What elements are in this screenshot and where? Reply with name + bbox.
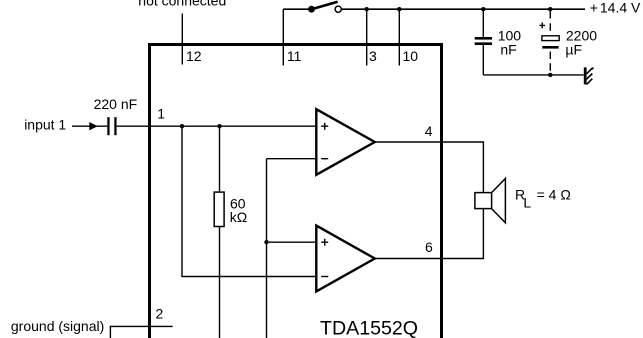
speaker LS1 box: [475, 193, 492, 209]
wire node C to non-inverting input of lower amp: [267, 241, 317, 243]
wire top supply rail right segment to +14.4 V: [342, 8, 585, 10]
switch S1 lever: [312, 2, 338, 10]
wire R1 bottom lead: [219, 227, 221, 338]
wire C3 dashed bottom lead: [549, 52, 551, 75]
wire output pin 6 to speaker bottom: [375, 209, 484, 259]
op-amp U1a triangle: [316, 109, 375, 175]
svg-text:220 nF: 220 nF: [94, 96, 138, 112]
wire pin 1 to non-inverting input of upper amp: [117, 125, 317, 127]
junction dot C3 bottom: [548, 73, 552, 77]
svg-text:1: 1: [157, 106, 165, 122]
wire pin 11 drop from rail into IC: [282, 9, 284, 65]
svg-text:11: 11: [287, 48, 302, 64]
wire top supply rail left segment: [283, 8, 311, 10]
svg-text:10: 10: [403, 48, 419, 64]
op-amp U1a plus sign: [321, 123, 328, 130]
svg-text:12: 12: [186, 48, 202, 64]
wire node B to resistor R1: [219, 126, 221, 192]
speaker LS1 horn: [492, 179, 506, 223]
pin 10 stub: [398, 9, 400, 65]
capacitor C1 220 nF plates: [107, 117, 109, 135]
capacitor C3 polarity plus sign: [539, 23, 545, 29]
svg-text:6: 6: [425, 239, 433, 255]
wire C2 bottom lead: [482, 45, 484, 75]
wire C3 dashed top lead: [549, 11, 551, 36]
svg-text:+: +: [590, 0, 598, 16]
ground (chassis) symbol: [584, 67, 594, 84]
op-amp U1b minus sign: [321, 276, 328, 278]
junction dot node C: [264, 240, 268, 244]
op-amp U1a minus sign: [321, 158, 328, 160]
switch S1 pivot dot: [308, 6, 315, 13]
op-amp U1b triangle: [316, 226, 375, 292]
svg-text:input 1: input 1: [24, 116, 66, 132]
switch S1 open contact circle: [335, 6, 341, 12]
junction dot rail C2 100nF: [481, 7, 485, 11]
svg-text:L: L: [523, 194, 531, 210]
svg-text:4: 4: [425, 123, 433, 139]
pin 2 stub ground (signal): [110, 326, 172, 338]
node A junction dot: [180, 124, 184, 128]
resistor R1 60 kOhm body: [214, 192, 224, 226]
junction dot rail C3 2200uF: [548, 7, 552, 11]
capacitor C3 negative plate (solid): [542, 46, 558, 49]
svg-text:3: 3: [369, 48, 377, 64]
IC U1 TDA1552Q package outline: [150, 45, 442, 338]
capacitor C3 positive plate (hollow): [542, 36, 559, 41]
node B junction dot: [217, 124, 221, 128]
svg-text:TDA1552Q: TDA1552Q: [320, 318, 418, 338]
svg-text:nF: nF: [500, 42, 516, 58]
svg-text:µF: µF: [565, 42, 582, 58]
wire decoupling ground return: [483, 74, 583, 76]
svg-text:not connected: not connected: [138, 0, 226, 9]
svg-text:14.4 V: 14.4 V: [600, 0, 641, 16]
capacitor C2 100 nF plates: [475, 37, 492, 40]
svg-text:kΩ: kΩ: [230, 209, 247, 225]
junction dot rail pin 10: [397, 7, 401, 11]
wire inverting input of upper amp: [267, 158, 317, 160]
pin 12 stub (not connected): [181, 14, 183, 65]
svg-text:ground (signal): ground (signal): [11, 318, 104, 334]
wire C2 top lead: [482, 9, 484, 37]
svg-text:2: 2: [156, 306, 164, 322]
pin 3 stub: [366, 9, 368, 65]
wire node A down and right to inverting input of lower amp: [182, 126, 316, 276]
wire feedback vertical run: [266, 159, 268, 338]
wire output pin 4 to speaker top: [375, 142, 484, 193]
wire input lead: [72, 125, 107, 127]
junction dot rail pin 3: [365, 7, 369, 11]
input arrow head: [89, 122, 97, 130]
svg-text:= 4 Ω: = 4 Ω: [537, 186, 571, 202]
op-amp U1b plus sign: [321, 239, 328, 246]
